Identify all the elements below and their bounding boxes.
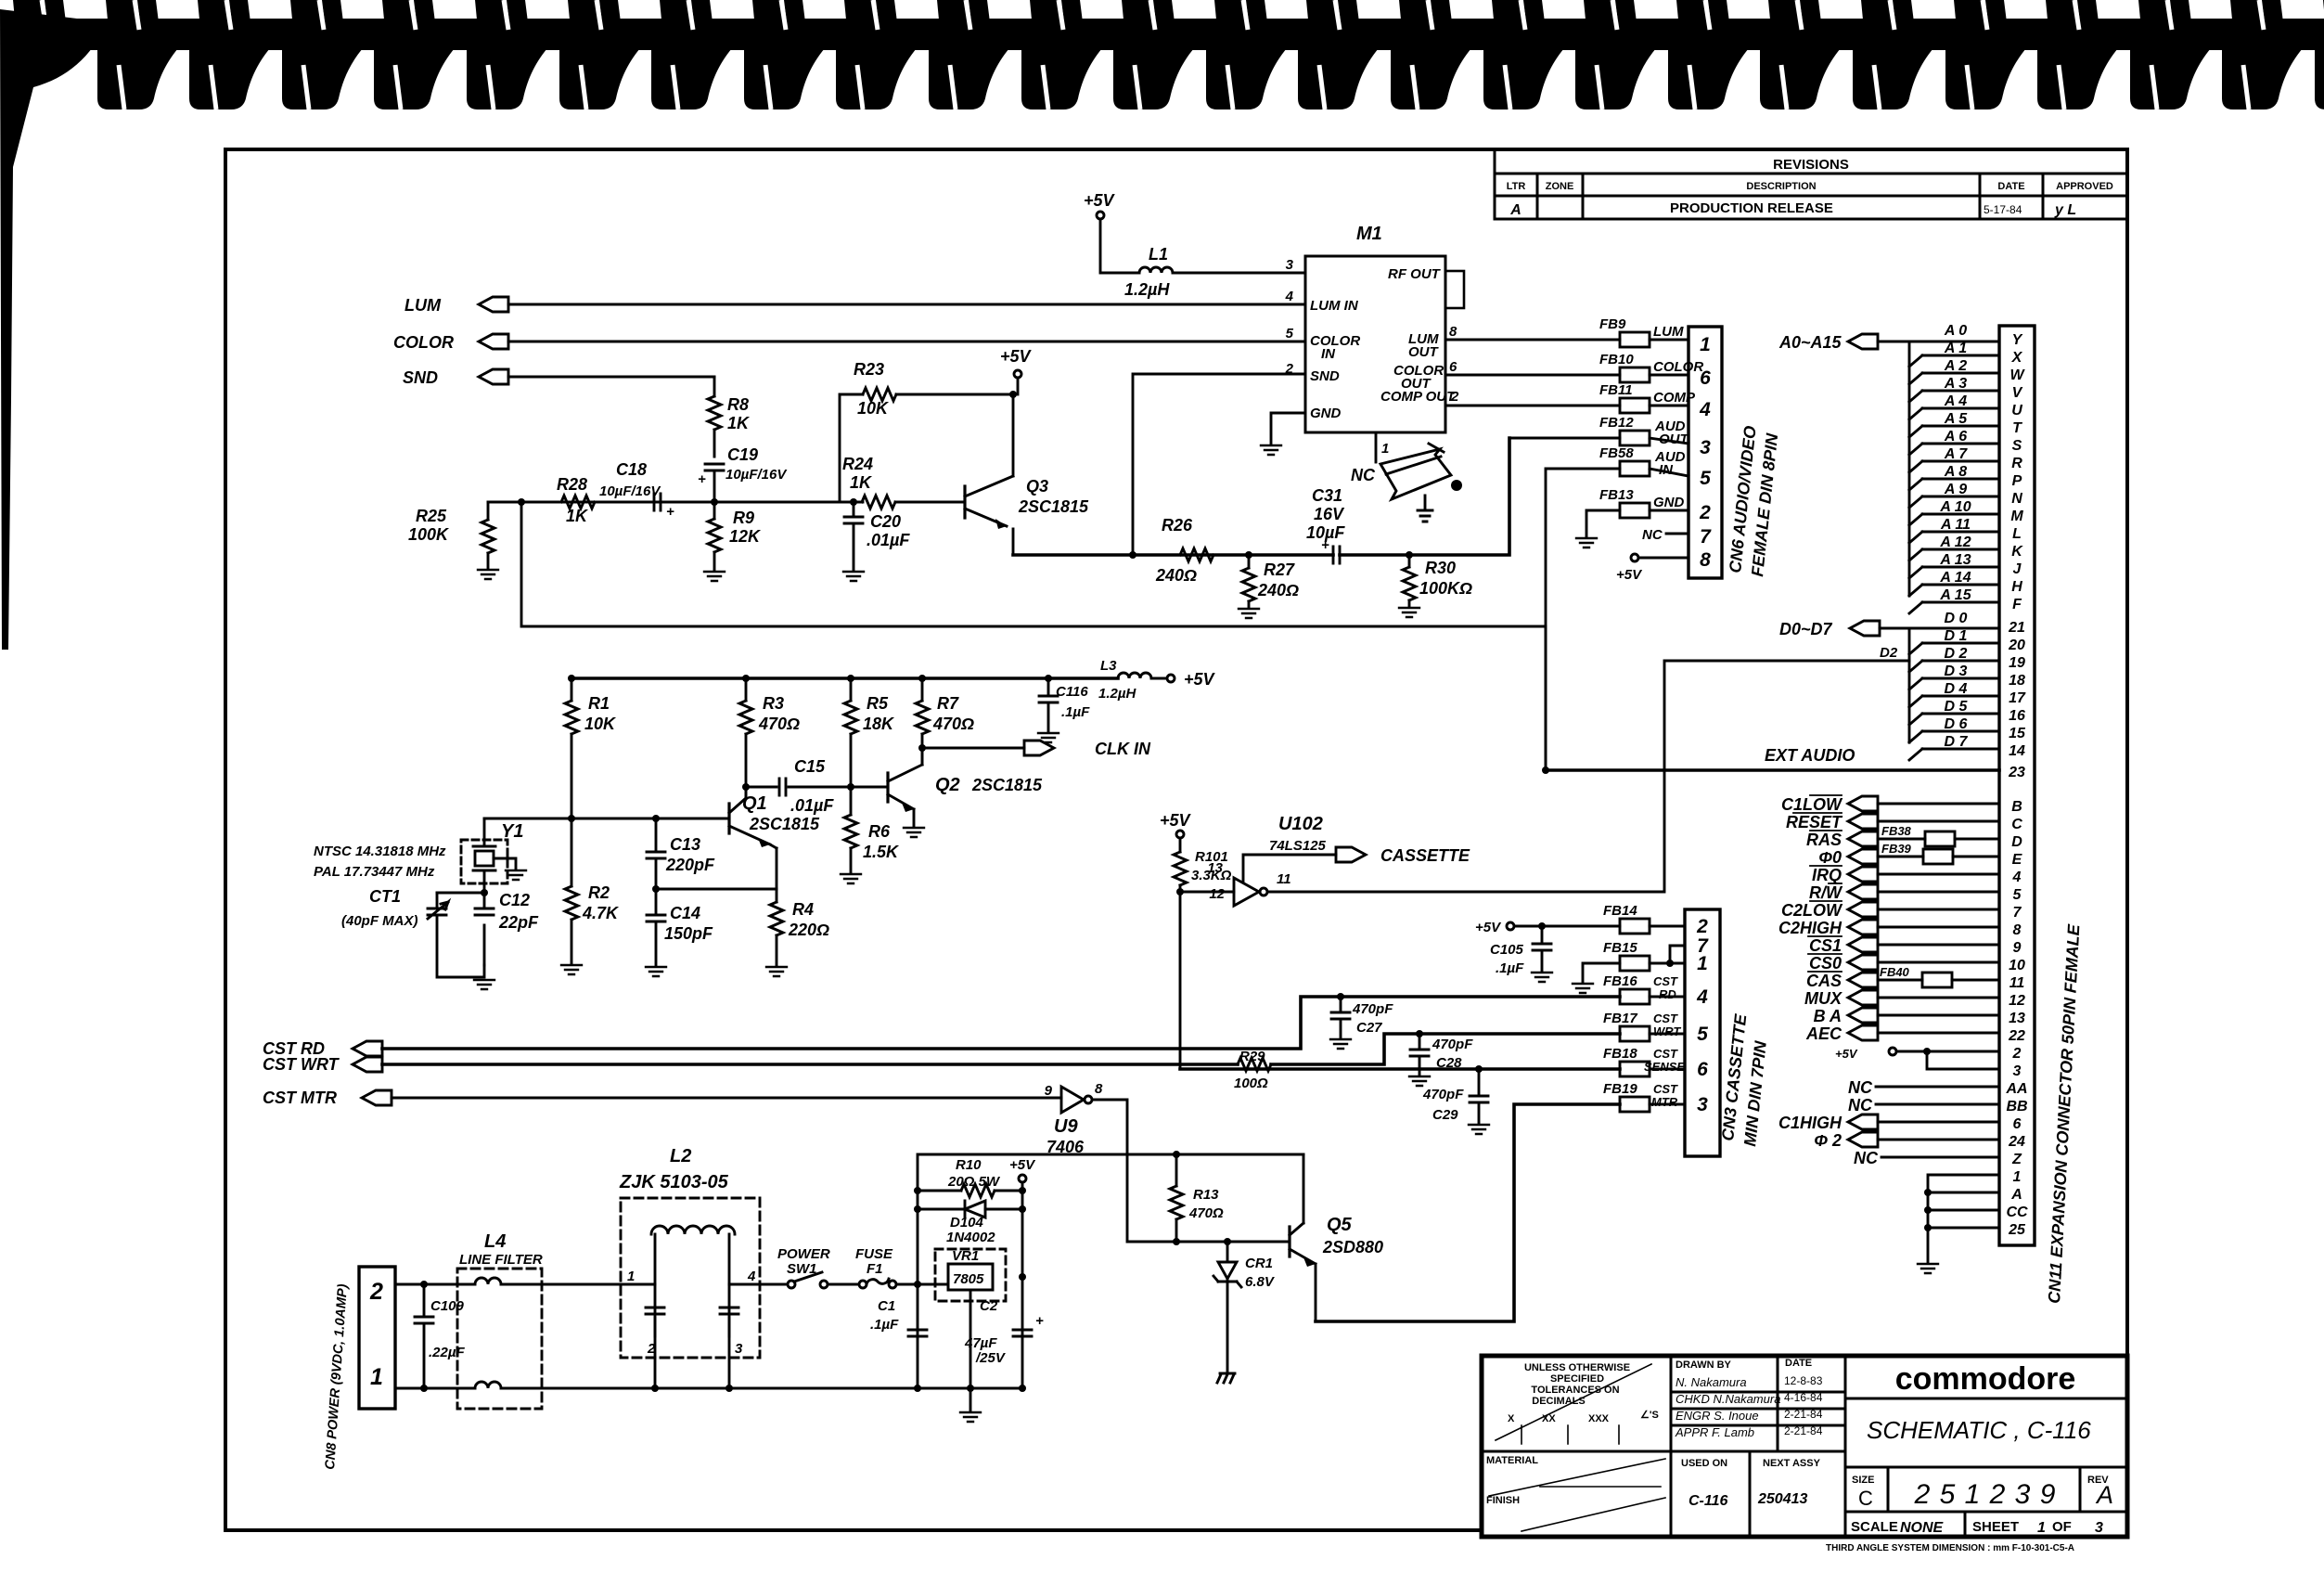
wire AEC [1878,1032,1999,1035]
svg-text:7: 7 [2013,905,2022,921]
svg-text:D 2: D 2 [1945,646,1968,662]
transistor Q5 2SD880 [1290,1154,1383,1321]
ground (C105) [1532,973,1552,982]
svg-text:A 10: A 10 [1939,499,1971,515]
svg-text:POWER: POWER [777,1246,830,1262]
+5V terminal (L3) [1151,670,1216,689]
svg-text:100KΩ: 100KΩ [1419,579,1472,598]
svg-text:C15: C15 [794,757,826,776]
svg-text:D 1: D 1 [1945,628,1968,644]
capacitor C109 .22uF [420,1281,428,1392]
svg-text:R26: R26 [1162,516,1193,535]
svg-text:T: T [2012,420,2022,436]
svg-text:CST: CST [1653,1082,1678,1096]
node Y1 bottom [481,889,488,896]
svg-text:CS1: CS1 [1809,936,1842,955]
svg-text:R28: R28 [557,475,587,494]
svg-text:R10: R10 [956,1157,982,1173]
resistor R25 100K [408,502,494,568]
svg-text:470pF: 470pF [1352,1001,1393,1017]
switch SW1 POWER [777,1246,859,1288]
svg-text:C31: C31 [1312,486,1342,505]
wire [1650,1103,1685,1106]
svg-text:LUM IN: LUM IN [1310,298,1359,314]
net B A [1814,1007,1878,1025]
svg-text:150pF: 150pF [664,924,713,943]
svg-text:3: 3 [735,1341,743,1357]
svg-text:R5: R5 [867,694,889,713]
wire FB15 left to ground [1583,963,1620,982]
svg-text:.01µF: .01µF [790,796,834,815]
M1 GND pin wire [1271,413,1305,444]
wire audio line [1013,438,1509,555]
svg-text:USED ON: USED ON [1681,1458,1727,1469]
wire audio feed long [521,502,1546,770]
svg-text:SIZE: SIZE [1852,1475,1874,1486]
svg-text:CLK IN: CLK IN [1095,740,1151,758]
inductor L2 ZJK 5103-05 [619,1146,760,1388]
svg-text:D 5: D 5 [1945,699,1969,715]
svg-text:1N4002: 1N4002 [946,1230,995,1245]
capacitor C20 .01uF [844,502,910,570]
svg-text:GND: GND [1310,406,1342,421]
svg-text:A 8: A 8 [1944,464,1967,480]
ground (C29) [1469,1125,1489,1134]
svg-text:CR1: CR1 [1245,1256,1273,1271]
svg-text:/25V: /25V [975,1350,1007,1366]
svg-text:C1: C1 [878,1298,895,1314]
svg-text:10µF/16V: 10µF/16V [599,483,661,499]
svg-text:1.5K: 1.5K [863,843,900,861]
svg-text:6: 6 [1697,1059,1708,1080]
svg-text:OF: OF [2052,1519,2072,1535]
svg-text:THIRD ANGLE SYSTEM DIM: THIRD ANGLE SYSTEM DIMENSION : mm F-10-3… [1826,1543,2074,1553]
net A12 [1909,535,1999,561]
svg-text:470Ω: 470Ω [1188,1205,1224,1221]
svg-text:OUT: OUT [1408,344,1440,360]
wire [1650,374,1688,377]
wire IRQ [1878,873,1999,876]
ferrite bead FB16 [1603,973,1678,1004]
svg-text:NC: NC [1848,1096,1873,1115]
ferrite bead FB38 [1878,824,1999,846]
svg-text:18K: 18K [863,715,895,733]
svg-text:4: 4 [1696,986,1708,1008]
svg-text:R4: R4 [792,900,814,919]
svg-text:FUSE: FUSE [855,1246,893,1262]
net A9 [1909,482,1999,508]
svg-text:IRQ: IRQ [1812,866,1842,884]
svg-text:D0~D7: D0~D7 [1779,620,1833,638]
wire ground pins 1/A/CC/25 [1928,1175,1999,1262]
net A10 [1909,499,1999,525]
resistor R5 18K [844,678,895,787]
svg-text:+: + [698,471,706,487]
svg-text:10: 10 [2009,958,2025,973]
svg-text:8: 8 [1095,1081,1103,1097]
svg-text:19: 19 [2009,655,2025,671]
svg-text:R6: R6 [868,822,891,841]
svg-text:X: X [2011,350,2023,366]
ground (C20) [843,572,864,581]
svg-text:COMP OUT: COMP OUT [1380,389,1457,405]
node CLK tap [918,744,926,752]
wire C2HIGH [1878,926,1999,929]
svg-text:A 3: A 3 [1944,376,1967,392]
revisions table [1495,149,2127,219]
svg-text:2SC1815: 2SC1815 [971,776,1043,794]
ground (R4) [766,967,787,976]
svg-text:9: 9 [1045,1083,1053,1099]
resistor R6 1.5K [844,787,900,872]
svg-text:FB38: FB38 [1881,824,1912,838]
wire pin2 line [395,1283,473,1286]
svg-text:5: 5 [2013,887,2022,903]
node collector junction [1009,391,1017,398]
wire [1650,469,1688,476]
wire Q1 emitter to R4 [770,844,777,848]
fuse F1 [855,1246,896,1288]
svg-text:V: V [2012,385,2023,401]
zener diode CR1 6.8V [1224,1238,1231,1245]
svg-text:14: 14 [2009,743,2025,759]
svg-text:240Ω: 240Ω [1257,581,1299,599]
+5V terminal (CN3) [1475,920,1620,935]
bus A lines [1908,341,1911,596]
node COLOR input arrow [393,333,508,352]
svg-text:+5V: +5V [1000,347,1033,366]
capacitor C1 .1uF [870,1298,927,1336]
transistor Q3 2SC1815 [965,394,1089,555]
net A13 [1909,552,1999,578]
ground (C116) [1038,733,1059,742]
svg-text:FB13: FB13 [1599,487,1634,503]
svg-text:FB11: FB11 [1599,382,1633,398]
wire EXT AUDIO [1546,768,1999,772]
ferrite bead FB12 [1599,415,1690,447]
net A0 [1909,323,1999,341]
svg-text:WRT: WRT [1653,1024,1681,1038]
trimmer capacitor CT1 (40pF MAX) [341,887,484,977]
net D3 [1909,664,1999,689]
svg-text:U9: U9 [1054,1116,1078,1137]
ferrite bead FB15 [1603,940,1650,971]
wire RESET [1878,820,1999,823]
svg-text:3: 3 [1700,437,1711,458]
connector CN3 CASSETTE MIN DIN 7PIN [1685,909,1770,1156]
svg-text:+5V: +5V [1009,1157,1036,1173]
resistor R28 1K [557,475,595,525]
net A11 [1909,517,1999,543]
svg-text:SND: SND [403,368,438,387]
svg-text:2: 2 [1696,916,1708,937]
svg-text:UNLESS OTHERWISE: UNLESS OTHERWISE [1524,1362,1630,1373]
+5V terminal (R101) [1160,811,1192,838]
node D0~D7 bus arrow [1779,620,1909,638]
net MUX [1804,989,1878,1008]
svg-text:.22µF: .22µF [429,1345,465,1360]
svg-text:FINISH: FINISH [1486,1495,1520,1506]
resistor R13 470ohm [1173,1151,1180,1245]
svg-text:20Ω 5W: 20Ω 5W [947,1174,1001,1190]
svg-text:5: 5 [1700,468,1711,489]
svg-text:RD: RD [1659,987,1676,1001]
svg-text:470pF: 470pF [1432,1037,1473,1052]
svg-text:100Ω: 100Ω [1234,1076,1268,1091]
node C15 tap [742,783,854,791]
svg-text:R24: R24 [842,455,873,473]
connector CN8 power 2-pin [359,1267,395,1409]
ferrite bead FB9 [1599,316,1684,347]
svg-text:1: 1 [2013,1169,2022,1185]
capacitor C27 470pF [1337,993,1344,1000]
node A0~A15 bus arrow [1778,333,1909,352]
svg-text:NC: NC [1854,1149,1879,1167]
svg-text:A: A [2010,1187,2022,1203]
wire L2 out [729,1283,787,1286]
svg-text:R2: R2 [588,883,610,902]
wire CST MTR [392,1097,1061,1100]
svg-text:7: 7 [1700,526,1712,548]
svg-text:6: 6 [1700,367,1711,389]
wire [508,341,1305,343]
wire junction [1542,767,1549,774]
svg-text:NTSC 14.31818 MHz: NTSC 14.31818 MHz [314,844,446,859]
net NC (BB) [1848,1096,1999,1115]
+5V terminal (CN6 pin8) [1616,554,1688,583]
svg-text:CAS: CAS [1806,972,1842,990]
svg-text:CST MTR: CST MTR [263,1089,337,1107]
svg-text:R29: R29 [1239,1049,1265,1064]
wire gnd bead [1586,510,1620,536]
svg-text:commodore: commodore [1895,1361,2076,1397]
capacitor C105 .1uF [1538,922,1546,930]
svg-text:C12: C12 [499,891,530,909]
svg-text:C13: C13 [670,835,700,854]
net A7 [1909,446,1999,472]
svg-text:8: 8 [1700,549,1711,571]
svg-text:FB14: FB14 [1603,903,1637,919]
scan left edge [0,9,108,650]
svg-text:20: 20 [2008,638,2025,653]
ground (FB15) [1573,984,1593,993]
svg-text:DATE: DATE [1785,1358,1812,1369]
RF modulator M1 [1285,224,1464,432]
node LUM input arrow [404,296,508,315]
svg-text:100K: 100K [408,525,450,544]
wire FB19 feed from Q5 [1316,1104,1620,1321]
wire [1100,219,1139,273]
ground (R27) [1239,609,1259,618]
svg-text:D104: D104 [950,1215,984,1231]
svg-text:M1: M1 [1356,224,1382,244]
svg-text:2: 2 [1699,502,1711,523]
capacitor C2 47uF/25V [964,1298,1044,1366]
svg-text:3: 3 [1286,257,1294,273]
svg-text:C27: C27 [1356,1020,1382,1036]
wire [508,303,1305,306]
svg-text:Φ0: Φ0 [1818,848,1842,867]
sheet border [225,149,2127,1537]
svg-text:A 9: A 9 [1944,482,1967,497]
svg-text:1: 1 [1700,334,1711,355]
svg-text:COLOR: COLOR [393,333,454,352]
svg-text:18: 18 [2009,673,2025,689]
ground (C27) [1330,1039,1351,1049]
svg-text:R7: R7 [937,694,959,713]
ground (C14) [646,967,666,976]
net NC (AA) [1848,1078,1999,1097]
svg-text:R25: R25 [416,507,447,525]
svg-text:+: + [666,504,674,520]
svg-text:A 13: A 13 [1939,552,1971,568]
net CS0 [1808,954,1878,973]
svg-text:220Ω: 220Ω [788,921,829,939]
resistor R1 10K [565,678,617,818]
svg-text:Q2: Q2 [935,775,960,795]
svg-text:FB16: FB16 [1603,973,1637,989]
svg-text:1: 1 [1381,441,1389,457]
svg-text:FB39: FB39 [1881,842,1912,856]
resistor R2 4.7K [568,815,575,822]
svg-text:5: 5 [1697,1024,1708,1045]
wire to Q3 base [895,501,965,504]
svg-text:C109: C109 [430,1298,465,1314]
bus D lines [1908,628,1911,742]
ferrite bead FB10 [1599,352,1703,382]
svg-text:2: 2 [2012,1046,2022,1062]
svg-text:X: X [1508,1413,1515,1424]
ground (CN11) [1918,1264,1938,1273]
capacitor C116 .1uF [1039,678,1090,731]
svg-text:U102: U102 [1278,814,1323,834]
resistor R9 12K [708,502,762,570]
ferrite bead FB40 [1878,965,1999,987]
svg-text:R: R [2011,456,2022,471]
ground (C28) [1409,1076,1430,1086]
svg-text:C116: C116 [1056,684,1088,700]
svg-text:13: 13 [1207,860,1223,876]
svg-text:1: 1 [370,1364,383,1390]
wire Q1 base line [484,818,729,820]
svg-text:C2HIGH: C2HIGH [1778,919,1843,937]
svg-text:APPROVED: APPROVED [2056,181,2113,192]
svg-text:D 0: D 0 [1945,611,1968,626]
net A15 [1909,587,1999,613]
wire unreg rail up [918,1154,1303,1284]
svg-text:J: J [2013,561,2022,577]
svg-text:C1LOW: C1LOW [1781,795,1843,814]
svg-text:DRAWN BY: DRAWN BY [1676,1359,1732,1371]
resistor R3 470ohm [739,678,800,798]
svg-text:PAL 17.73447 MHz: PAL 17.73447 MHz [314,864,435,880]
wire C1LOW [1878,803,1999,805]
svg-text:C: C [2011,817,2022,832]
svg-text:LUM: LUM [404,296,442,315]
svg-text:12K: 12K [729,527,762,546]
ground (R2) [561,965,582,974]
svg-text:10K: 10K [857,399,890,418]
svg-text:R1: R1 [588,694,610,713]
resistor R7 470ohm [916,678,974,765]
ground (power rail) [969,1388,972,1411]
resistor R10 20ohm 5W [918,1157,1022,1197]
svg-text:Z: Z [2011,1152,2022,1167]
capacitor C31 10uF 16V [1306,486,1345,563]
wire R101 down to CST SENSE [1179,892,1182,1069]
node CST RD arrow [263,1039,382,1058]
svg-text:CST: CST [1653,974,1678,988]
svg-text:17: 17 [2009,690,2026,706]
svg-text:5: 5 [1286,326,1294,341]
wire aud in feed [1546,469,1620,770]
label NTSC/PAL [314,844,446,880]
svg-text:D 3: D 3 [1945,664,1968,679]
crystal Y1 [461,818,523,893]
svg-text:C20: C20 [870,512,901,531]
svg-text:Q5: Q5 [1327,1215,1353,1235]
wire [508,376,714,379]
net C1HIGH [1778,1114,1999,1132]
wire junction [914,1187,921,1392]
diode D104 1N4002 [918,1201,1022,1245]
net IRQ [1810,866,1878,884]
ground (M1) [1261,445,1281,455]
wire fuse to VR1 [896,1283,948,1286]
crystal case ground [494,858,516,869]
resistor R8 1K [708,377,751,457]
net C1LOW [1781,795,1878,814]
svg-text:FB15: FB15 [1603,940,1637,956]
wire [1650,405,1688,407]
wire pin1 line [395,1387,473,1390]
svg-text:GND: GND [1653,495,1685,510]
svg-text:FB19: FB19 [1603,1081,1637,1097]
ground (C12) [474,980,494,989]
wire audio out to FB12 [1509,437,1620,440]
svg-text:C: C [1858,1487,1873,1510]
svg-text:8: 8 [2013,922,2022,938]
ground (FB13) [1576,538,1597,548]
svg-text:PRODUCTION RELEASE: PRODUCTION RELEASE [1670,200,1833,216]
net A3 [1909,376,1999,402]
+5V rail (oscillator) [571,676,1118,680]
transistor Q2 2SC1815 [888,748,1043,826]
svg-text:C2: C2 [980,1298,998,1314]
svg-text:∠'S: ∠'S [1640,1410,1659,1421]
svg-text:240Ω: 240Ω [1155,566,1197,585]
svg-text:SCALE: SCALE [1851,1519,1898,1535]
svg-text:47µF: 47µF [964,1335,997,1351]
svg-text:D2: D2 [1880,645,1898,661]
wire M1 COMP OUT to FB11 [1445,405,1620,407]
svg-text:2: 2 [647,1341,656,1357]
svg-text:K: K [2011,544,2023,560]
ground (R30) [1399,608,1419,617]
svg-text:A: A [1509,202,1522,218]
svg-text:U: U [2011,403,2022,419]
svg-text:12-8-83: 12-8-83 [1784,1374,1823,1387]
svg-text:220pF: 220pF [665,856,715,874]
wire [437,893,484,965]
ground (Q2) [904,828,924,837]
svg-text:AEC: AEC [1805,1024,1843,1043]
svg-text:.01µF: .01µF [867,531,910,549]
svg-text:y L: y L [2054,202,2076,218]
svg-text:R9: R9 [733,509,754,527]
title block [1482,1356,2127,1537]
wire U9 out to Q5 base [1092,1100,1290,1242]
